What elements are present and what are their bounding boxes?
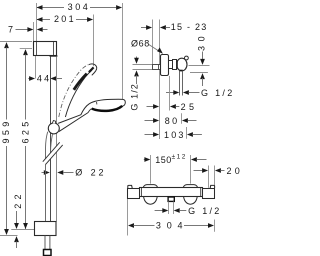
nipple root (dark)	[179, 70, 183, 72]
hose below bracket right	[49, 236, 51, 250]
handshower head	[81, 99, 126, 115]
label G1/2 bottom	[155, 206, 222, 216]
dimension 25	[147, 76, 198, 112]
svg-text:Ø 22: Ø 22	[75, 168, 106, 178]
dimension 959	[0, 42, 32, 236]
head neck bottom	[88, 109, 92, 113]
svg-text:625: 625	[21, 118, 31, 143]
outlet nipple	[179, 71, 181, 96]
svg-text:±12: ±12	[172, 154, 187, 161]
handshower handle top line	[58, 115, 81, 124]
outlet extension lines	[168, 202, 170, 215]
extension line 201 (phantom head tip)	[93, 15, 95, 67]
svg-text:30: 30	[197, 32, 207, 51]
handle knob	[177, 58, 187, 71]
dimension 103	[145, 127, 202, 140]
svg-text:22: 22	[13, 190, 23, 208]
knob grip ear	[185, 56, 189, 60]
pipe diameter extension lines	[133, 64, 153, 66]
dimension 80	[145, 113, 197, 126]
svg-text:Ø68: Ø68	[131, 39, 150, 49]
dimension 15 - 23	[141, 22, 208, 32]
dimension 304 (top, wall to spray face)	[37, 2, 123, 12]
svg-text:201: 201	[54, 14, 76, 24]
head button	[96, 102, 98, 105]
dimension 22 (bottom)	[13, 190, 23, 248]
break line 2	[46, 145, 63, 164]
hose end nut	[44, 250, 52, 256]
union bottom arc left	[144, 197, 158, 204]
svg-text:80: 80	[165, 116, 180, 126]
break line 1	[43, 142, 60, 161]
slider knob	[48, 123, 59, 134]
dimension 625	[11, 49, 34, 230]
union dome left (above body)	[143, 185, 157, 188]
dimension 304 (bottom)	[128, 199, 215, 236]
extension line 304 (spray face)	[122, 3, 124, 99]
hose right line (merges bar left edge)	[51, 134, 53, 152]
slider clip tab	[52, 121, 55, 124]
top bracket	[34, 42, 57, 56]
svg-text:7: 7	[8, 25, 13, 35]
union bottom arc right	[184, 197, 198, 204]
dimension 44	[28, 56, 62, 84]
bar break symbol	[43, 142, 63, 164]
hose below bracket left	[44, 236, 46, 250]
svg-text:103: 103	[164, 130, 186, 140]
G1/2 supply pipe vertical dimension	[130, 57, 140, 111]
spray face band	[92, 106, 123, 111]
svg-text:20: 20	[227, 166, 242, 176]
phantom handshower dashed outline	[59, 65, 89, 117]
phantom head tip	[89, 64, 97, 75]
extension line wall reference	[36, 3, 38, 42]
center outlet	[168, 197, 174, 201]
union nut line in pipe	[158, 65, 160, 70]
phantom handshower solid outline	[65, 70, 91, 117]
svg-text:959: 959	[1, 118, 11, 143]
knob inner edge line	[176, 60, 178, 69]
wall bar left edge	[50, 57, 52, 222]
wall bar right edge	[56, 57, 58, 222]
svg-text:150: 150	[155, 155, 172, 165]
valve body	[173, 60, 177, 70]
right knob	[201, 185, 215, 198]
svg-text:G 1/2: G 1/2	[201, 88, 235, 98]
escutcheon (68mm)	[161, 55, 169, 76]
bar top cap	[50, 55, 58, 57]
hose left line	[46, 132, 48, 236]
dimension 30	[189, 32, 210, 86]
thermostat body bar	[140, 188, 203, 197]
union dome right (above body)	[183, 185, 197, 188]
dimension 150 +/-12	[144, 154, 207, 184]
svg-text:G 1/2: G 1/2	[130, 83, 140, 111]
dimension diameter 22	[42, 168, 107, 178]
valve adapter ring	[169, 61, 173, 69]
dimension 7	[8, 22, 48, 42]
handshower handle bottom line	[59, 113, 88, 132]
svg-text:3 0 4: 3 0 4	[156, 221, 184, 231]
wall finish line min	[152, 20, 154, 65]
label diameter 68	[131, 39, 163, 54]
svg-text:44: 44	[37, 74, 51, 84]
supply pipe stub	[153, 65, 161, 70]
wall finish line max	[159, 20, 161, 140]
dimension 201	[37, 14, 94, 24]
label G1/2 outlet	[166, 88, 235, 98]
dimension 20	[194, 166, 244, 188]
bottom bracket	[35, 222, 57, 236]
left knob	[128, 185, 142, 198]
phantom spray face band	[74, 74, 87, 90]
svg-text:G 1/2: G 1/2	[188, 206, 222, 216]
svg-text:304: 304	[68, 2, 91, 12]
svg-text:25: 25	[181, 102, 198, 112]
svg-text:15 - 23: 15 - 23	[171, 22, 208, 32]
